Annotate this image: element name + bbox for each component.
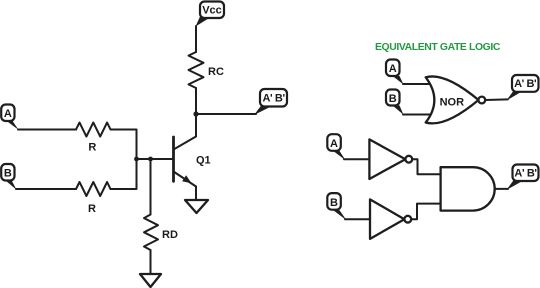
resistor R1 <box>76 123 111 154</box>
input label B (NOR) <box>386 90 404 115</box>
wire emitter to ground <box>195 187 197 201</box>
power label Vcc <box>196 2 225 27</box>
inverter U4 (NOT gate) <box>370 199 404 239</box>
svg-text:RD: RD <box>162 229 178 241</box>
svg-text:B: B <box>4 168 12 180</box>
title EQUIVALENT GATE LOGIC <box>375 42 501 53</box>
node input join <box>134 157 139 162</box>
wire A to NOR <box>403 83 434 85</box>
svg-text:A: A <box>4 108 12 120</box>
wire A to inverter 1 <box>344 158 369 160</box>
input label A (inverter) <box>327 134 345 160</box>
svg-text:A' B': A' B' <box>514 78 537 90</box>
svg-text:Q1: Q1 <box>196 155 211 167</box>
node RD branch <box>148 157 153 162</box>
svg-text:A: A <box>389 63 397 75</box>
gate NOR U2 <box>426 76 479 123</box>
svg-text:R: R <box>88 203 96 215</box>
svg-text:A' B': A' B' <box>263 93 286 105</box>
wire A to resistor R1 <box>18 129 76 131</box>
wire RD to ground <box>150 250 152 274</box>
wire collector <box>174 114 197 150</box>
inverter U3 (NOT gate) <box>369 139 405 179</box>
resistor R2 <box>76 182 111 215</box>
svg-text:Vcc: Vcc <box>202 5 222 17</box>
svg-text:NOR: NOR <box>440 97 465 109</box>
svg-text:RC: RC <box>208 66 224 78</box>
svg-text:B: B <box>330 197 338 209</box>
wire base node to RD <box>150 159 152 215</box>
wire output to A'B' <box>196 113 256 115</box>
wire B to inverter 2 <box>345 218 370 220</box>
input label A <box>1 105 18 130</box>
gate AND U5 <box>441 167 495 210</box>
svg-text:A: A <box>330 138 338 150</box>
bubble inverter 2 <box>404 216 411 223</box>
wire AND output <box>495 188 508 190</box>
resistor RD <box>144 215 178 251</box>
wire Vcc to RC <box>195 26 197 52</box>
wire R2 to join <box>111 159 137 189</box>
resistor RC <box>189 52 224 88</box>
output label A'B' (AND) <box>507 165 539 191</box>
wire B to NOR <box>403 114 434 116</box>
bubble inverter 1 <box>405 156 412 163</box>
wire inverter 2 to AND <box>411 204 440 220</box>
svg-text:A' B': A' B' <box>514 168 537 180</box>
input label B (inverter) <box>327 193 346 220</box>
wire base <box>137 158 174 160</box>
output label A'B' (left circuit) <box>254 89 287 115</box>
ground (RD) <box>140 274 161 287</box>
node collector junction <box>193 111 198 116</box>
wire RC to collector node <box>195 88 197 114</box>
wire B to resistor R2 <box>16 188 76 190</box>
svg-text:EQUIVALENT GATE LOGIC: EQUIVALENT GATE LOGIC <box>375 42 501 53</box>
wire NOR output <box>485 98 508 101</box>
ground (emitter) <box>185 200 208 213</box>
svg-text:B: B <box>389 93 397 105</box>
bubble NOR output <box>478 97 485 104</box>
wire inverter 1 to AND <box>412 159 440 174</box>
output label A'B' (NOR) <box>507 75 539 101</box>
input label A (NOR) <box>386 60 404 85</box>
svg-text:R: R <box>88 142 96 154</box>
input label B <box>1 164 16 190</box>
wire R1 to join <box>111 130 137 160</box>
transistor Q1 <box>174 137 211 187</box>
